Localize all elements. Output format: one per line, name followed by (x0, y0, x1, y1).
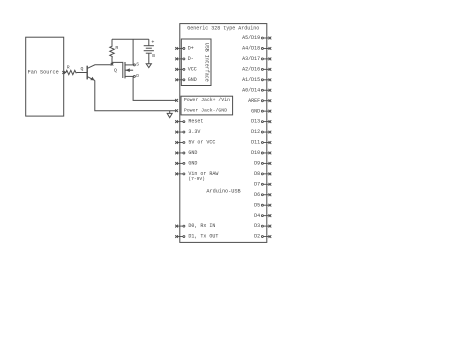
svg-text:Fan Source: Fan Source (28, 69, 59, 75)
svg-text:Reset: Reset (188, 119, 203, 125)
svg-text:D7: D7 (254, 181, 260, 187)
svg-text:D13: D13 (251, 119, 260, 125)
svg-text:D0, Rx IN: D0, Rx IN (188, 223, 215, 229)
svg-text:Generic 328 type Arduino: Generic 328 type Arduino (187, 26, 259, 32)
svg-text:GND: GND (188, 77, 197, 83)
svg-text:D+: D+ (188, 46, 194, 52)
svg-text:B: B (152, 53, 155, 59)
svg-text:VCC: VCC (188, 66, 197, 72)
svg-text:D10: D10 (251, 150, 260, 156)
svg-text:D-: D- (188, 56, 194, 62)
svg-text:Power Jack-/GND: Power Jack-/GND (184, 107, 227, 113)
svg-text:A4/D18: A4/D18 (242, 46, 260, 52)
svg-text:R: R (115, 45, 118, 51)
svg-text:+: + (151, 40, 154, 46)
svg-text:D: D (136, 73, 139, 79)
svg-text:3.3V: 3.3V (188, 129, 200, 135)
svg-text:D1, Tx OUT: D1, Tx OUT (188, 234, 218, 240)
svg-text:GND: GND (188, 161, 197, 167)
svg-text:D3: D3 (254, 223, 260, 229)
svg-text:USB Interface: USB Interface (203, 43, 209, 82)
svg-text:D9: D9 (254, 161, 260, 167)
svg-text:D4: D4 (254, 213, 260, 219)
svg-text:D5: D5 (254, 202, 260, 208)
svg-text:D11: D11 (251, 140, 260, 146)
svg-text:Q: Q (114, 68, 117, 74)
svg-text:A3/D17: A3/D17 (242, 56, 260, 62)
svg-text:A5/D19: A5/D19 (242, 35, 260, 41)
svg-text:AREF: AREF (248, 98, 260, 104)
svg-text:Arduino-USB: Arduino-USB (206, 189, 240, 195)
svg-text:Q: Q (80, 66, 83, 72)
svg-text:A2/D16: A2/D16 (242, 66, 260, 72)
svg-text:S: S (136, 62, 139, 68)
svg-text:A0/D14: A0/D14 (242, 87, 260, 93)
svg-text:5V or VCC: 5V or VCC (188, 140, 215, 146)
svg-text:R: R (67, 64, 70, 70)
svg-text:Power Jack+ /Vin: Power Jack+ /Vin (184, 97, 230, 103)
svg-text:D2: D2 (254, 234, 260, 240)
svg-text:A1/D15: A1/D15 (242, 77, 260, 83)
svg-text:GND: GND (251, 108, 260, 114)
svg-text:GND: GND (188, 150, 197, 156)
svg-text:D6: D6 (254, 192, 260, 198)
svg-text:(7-9V): (7-9V) (188, 176, 205, 182)
svg-text:D12: D12 (251, 129, 260, 135)
svg-text:D8: D8 (254, 171, 260, 177)
